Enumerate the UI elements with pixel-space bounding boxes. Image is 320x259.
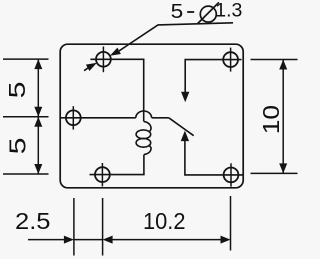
hole TR (pin NC) [223, 48, 238, 72]
right dim line [282, 60, 284, 174]
wire hump to pivot [152, 117, 169, 119]
right dim extension line bottom [251, 172, 298, 174]
svg-text:2.5: 2.5 [15, 208, 51, 234]
left dim arrow up at top [34, 59, 42, 69]
bottom dim extension line x102.6 [102, 198, 104, 256]
wire BL to coil bottom [90, 155, 144, 175]
leader second arrowhead [86, 63, 97, 71]
svg-text:5: 5 [171, 0, 184, 23]
leader second arrow tail [84, 68, 88, 71]
wire crossover hump [136, 111, 152, 118]
dim 10.2 line [110, 239, 221, 241]
svg-text:10: 10 [260, 105, 285, 134]
wire ML to switch pivot [60, 117, 135, 119]
leader line for hole label [119, 23, 233, 51]
svg-text:5: 5 [4, 82, 30, 99]
left dim extension line bottom [3, 173, 49, 175]
relay body outline [60, 44, 243, 188]
left dim extension line middle [3, 116, 49, 118]
wire TL to coil top [90, 59, 143, 121]
svg-text:10.2: 10.2 [143, 208, 186, 234]
hole BR (pin NO) [224, 163, 239, 186]
left dim arrow down at middle [34, 107, 42, 117]
leader arrowhead at hole [110, 48, 121, 56]
hole TL (pin 1) [96, 47, 111, 73]
coil L1 exit curve [144, 145, 151, 155]
NO arrow (up) [181, 131, 188, 140]
bottom dim extension line x73.9 [73, 198, 75, 256]
dim 2.5 arrow right [64, 236, 74, 244]
right dim arrow down [279, 163, 287, 173]
wire BR to NO arrow [185, 141, 243, 175]
right dim arrow up [279, 60, 287, 70]
left dim line [37, 59, 39, 174]
coil L1 entry curve [144, 121, 151, 132]
switch arm [169, 118, 194, 136]
left dim arrow down at bottom [34, 164, 42, 174]
wire TR to NC arrow [185, 60, 241, 93]
dim 2.5 tail line [28, 239, 65, 241]
svg-text:5: 5 [5, 138, 31, 155]
label hyphen stroke [187, 11, 194, 13]
coil L1 loop 1 [136, 130, 151, 139]
diameter symbol circle [200, 6, 216, 22]
hole BL (pin coil-) [95, 163, 110, 186]
dim line between 2.5 ext lines [74, 239, 103, 241]
dim 10.2 arrow right [221, 236, 231, 244]
bottom dim extension line x230.5 [230, 196, 232, 251]
dim 2.5 arrow left / 10.2 left arrow [103, 236, 113, 244]
hole ML (common pin) [66, 106, 81, 129]
left dim arrow up at middle [34, 117, 42, 127]
NC arrow (down) [182, 92, 189, 101]
svg-text:1.3: 1.3 [215, 0, 242, 21]
right dim extension line top [251, 59, 298, 61]
diameter symbol slash [198, 2, 219, 23]
left dim extension line top [3, 58, 49, 60]
coil L1 loop 2 [136, 138, 151, 147]
